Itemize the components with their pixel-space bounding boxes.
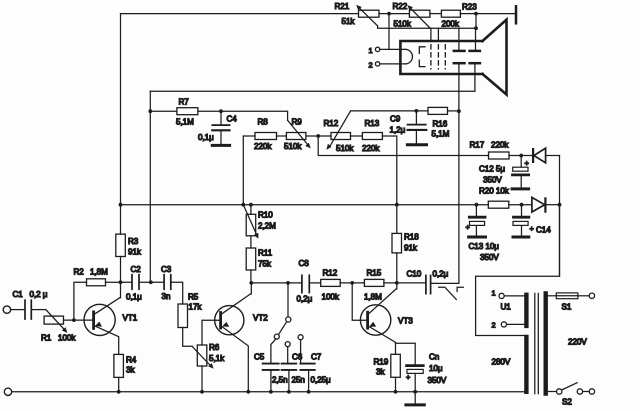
junction C14 tap [520, 203, 524, 207]
svg-text:R23: R23 [462, 3, 477, 12]
svg-text:10μ: 10μ [429, 364, 443, 373]
wire: R21 to R22 [379, 13, 409, 15]
svg-text:5,1k: 5,1k [209, 354, 225, 363]
svg-text:C10: C10 [407, 270, 422, 279]
wire: R1 to VT1 base [64, 319, 94, 321]
wire: grid hang-down x=430.9 [430, 28, 432, 41]
wire: main supply rail y=204.7 [121, 204, 489, 206]
capacitor C10 0,2u [426, 275, 431, 293]
junction x=150.3 y=111.2 [148, 109, 152, 113]
wire: doubler vertical x=559.5 [559, 156, 561, 277]
wire: vertical x=476 top rail to wiper bus [475, 14, 477, 29]
svg-text:220V: 220V [568, 338, 587, 347]
capacitor C8 0,2u [302, 275, 309, 292]
wire: R6 top to VT2 base [202, 320, 221, 345]
junction rail x=243.3 (R8 lead / R10 wiper) [241, 203, 245, 207]
svg-text:R18: R18 [404, 233, 419, 242]
svg-text:C2: C2 [131, 265, 142, 274]
svg-text:C8: C8 [299, 259, 310, 268]
svg-text:C9: C9 [390, 115, 401, 124]
CRT funnel [483, 20, 507, 95]
wire: R17 to diode VD1 [509, 155, 532, 157]
svg-text:R9: R9 [292, 118, 303, 127]
svg-text:Cn: Cn [429, 353, 439, 362]
svg-text:R21: R21 [335, 2, 350, 11]
svg-text:280V: 280V [492, 358, 511, 367]
capacitor C9 1,2u [408, 111, 427, 144]
junction VT3 collector node x=396.8 [395, 281, 399, 285]
CRT grid (dashed) 2 [437, 45, 439, 69]
svg-text:100k: 100k [58, 334, 76, 343]
junction rail x=396.8 [395, 203, 399, 207]
switch contact C5 [274, 334, 279, 339]
wire: R7 row left segment [150, 110, 177, 112]
diode VD2 (cathode right) [532, 197, 546, 212]
svg-text:3k: 3k [376, 368, 385, 377]
svg-text:R12: R12 [324, 119, 339, 128]
transformer T1 winding 220V (right bar) [544, 294, 548, 394]
svg-text:200k: 200k [442, 20, 460, 29]
svg-text:220k: 220k [254, 142, 272, 151]
resistor R9 510k (variable) wiper arrow [288, 120, 308, 145]
svg-text:R16: R16 [433, 120, 448, 129]
svg-text:U1: U1 [501, 303, 512, 312]
svg-text:C4: C4 [227, 115, 238, 124]
junction plate node x=458.9 [457, 109, 461, 113]
resistor R6 5,1k (variable) [192, 345, 214, 392]
svg-text:R13: R13 [365, 119, 380, 128]
svg-text:C1: C1 [13, 290, 24, 299]
wire: R16 to plate vertical [448, 110, 459, 112]
wire: heater lead 1 [380, 48, 406, 50]
svg-text:25n: 25n [292, 376, 305, 385]
svg-text:R7: R7 [179, 98, 190, 107]
capacitor C1 0,2u [25, 300, 31, 319]
resistor R22 510k (variable) [407, 5, 430, 28]
svg-text:0,2μ: 0,2μ [433, 270, 449, 279]
ground (below C9) [407, 143, 426, 146]
junction C9 tap [415, 109, 419, 113]
svg-text:R1: R1 [41, 334, 52, 343]
resistor R20 10k body [488, 201, 509, 208]
svg-text:5,1M: 5,1M [176, 118, 194, 127]
switch contact C7 [298, 335, 303, 340]
svg-text:R20 10k: R20 10k [479, 187, 510, 196]
capacitor C13 10u 350V (electrolytic) [469, 205, 485, 236]
resistor R18 91k [392, 233, 402, 283]
switch S2 [548, 383, 595, 394]
svg-text:0,2 μ: 0,2 μ [30, 290, 48, 299]
CRT bottom-right deflection plate [470, 63, 480, 91]
ground (below C4) [212, 144, 229, 147]
svg-text:1,8M: 1,8M [90, 268, 108, 277]
resistor R4 3k [114, 354, 124, 391]
svg-text:220k: 220k [491, 141, 509, 150]
wire: R2 to collector node [106, 281, 133, 283]
terminal U1 pin 1 [499, 293, 524, 298]
svg-text:2,2M: 2,2M [258, 222, 276, 231]
svg-text:350V: 350V [428, 376, 447, 385]
terminal 1 (heater) [375, 47, 379, 51]
resistor R19 3k [391, 354, 401, 392]
svg-text:+: + [525, 159, 529, 168]
junction R9/R12 x=318.2 [316, 134, 320, 138]
svg-text:R22: R22 [393, 2, 408, 11]
wire: R9/R12 junction down and right to R17 row [318, 136, 488, 156]
resistor R23 200k [441, 10, 460, 17]
junction rail C5 [269, 390, 273, 394]
transistor VT1 (PNP) [84, 282, 121, 354]
ground (below C13) [469, 236, 486, 239]
ground (below C12) [512, 187, 529, 190]
svg-text:17k: 17k [189, 303, 203, 312]
junction doubler x=559.5 [558, 203, 562, 207]
wire: top rail y=13.6 from big loop corner to R21 [121, 13, 359, 15]
CRT top-left deflection plate [454, 28, 465, 51]
svg-text:R5: R5 [188, 293, 199, 302]
wire: R23 to anode terminator [460, 13, 514, 15]
transistor VT3 (PNP) [360, 283, 396, 354]
svg-text:VT1: VT1 [123, 314, 138, 323]
svg-text:0,2μ: 0,2μ [297, 295, 313, 304]
wire: C2 to C3 [140, 281, 164, 283]
svg-text:+: + [530, 224, 534, 233]
svg-text:0,1μ: 0,1μ [198, 133, 214, 142]
wire: VD2 to doubler vertical [546, 204, 560, 206]
wire: R15 to VT3 collector node [384, 282, 426, 284]
svg-text:2: 2 [492, 321, 496, 330]
svg-text:C14: C14 [536, 226, 551, 235]
svg-text:+: + [406, 373, 410, 382]
CRT top-right deflection plate [470, 28, 480, 51]
ground (below C14) [513, 236, 529, 239]
CRT grid (dashed) 1 [430, 45, 432, 69]
wire: long feedback line y=91.3 to bottom-right plate [150, 90, 475, 92]
capacitor C14 (electrolytic) [513, 205, 529, 236]
wire: VD1 to right vertical [546, 155, 560, 157]
resistor R12 100k [321, 279, 341, 286]
wire: R12 to R15 [340, 282, 364, 284]
resistor R12 510k (variable) [326, 111, 350, 150]
resistor R2 1,8M [87, 279, 106, 286]
spark gap (discharger) [439, 287, 464, 299]
junction rail x=476.4 (C13) [475, 203, 479, 207]
svg-text:C7: C7 [311, 353, 322, 362]
svg-text:R2: R2 [74, 268, 85, 277]
resistor R11 75k [246, 236, 256, 283]
terminal U1 pin 2 [501, 322, 524, 327]
ground (chassis below rail) [406, 392, 424, 405]
wire: R8 left lead down to supply rail [242, 136, 244, 205]
svg-text:51k: 51k [342, 17, 356, 26]
wire: cathode drop x=389 to heater lead [388, 14, 390, 50]
wire: left vertical x=150.3 (y91 corner down to C2/C3 node) [149, 91, 151, 282]
wire: bottom common rail y=391.8 [12, 391, 525, 393]
anode terminator bar [515, 6, 518, 23]
wire: C3 right to R5 [172, 282, 183, 304]
resistor R13 220k [362, 133, 382, 140]
svg-text:R15: R15 [367, 269, 382, 278]
capacitor C2 0,1u [132, 275, 139, 290]
svg-text:S1: S1 [562, 303, 572, 312]
wire: R20 to diode VD2 [509, 204, 532, 206]
wire: VT3 base drop [352, 283, 367, 320]
svg-text:R3: R3 [128, 237, 139, 246]
wire: R22 to R23 [430, 13, 442, 15]
junction C12 tap [519, 154, 523, 158]
svg-text:R4: R4 [126, 356, 137, 365]
svg-text:350V: 350V [480, 253, 499, 262]
wire: base node up to R2 [74, 282, 87, 320]
wire: R9 to R12 junction [306, 135, 331, 137]
wire: collector row to C8 [251, 282, 301, 284]
junction rail Cn/ground [413, 390, 417, 394]
capacitor Cn 10u 350V (electrolytic) [407, 366, 424, 392]
svg-text:75k: 75k [258, 260, 272, 269]
svg-text:VT3: VT3 [398, 317, 413, 326]
junction top wire x=389 [387, 12, 391, 16]
svg-text:510k: 510k [336, 144, 354, 153]
svg-text:R6: R6 [209, 343, 220, 352]
junction rail x=250.9 (R10 top) [249, 203, 253, 207]
junction VT1 collector node x=120.5 [119, 280, 123, 284]
resistor R1 100k (variable) [44, 310, 67, 333]
resistor R8 220k [255, 133, 277, 140]
wire: vertical deflection feed x=458.9 down to C10 [458, 111, 460, 283]
svg-text:1,2μ: 1,2μ [390, 126, 406, 135]
svg-text:0,1μ: 0,1μ [126, 293, 142, 302]
svg-text:3k: 3k [126, 366, 135, 375]
diode VD1 (cathode left) [533, 148, 546, 163]
CRT cathode bracket top [419, 47, 425, 54]
svg-text:350V: 350V [483, 176, 502, 185]
transistor VT2 (PNP) [215, 283, 252, 392]
svg-text:91k: 91k [404, 244, 418, 253]
junction switch tap [286, 281, 290, 285]
svg-text:R17: R17 [470, 141, 485, 150]
svg-text:510k: 510k [394, 20, 412, 29]
resistor R7 5,1M [177, 108, 198, 115]
wire: C10 right to plate vertical [431, 282, 459, 284]
resistor R21 51k (variable) [356, 5, 379, 26]
junction top wire x=476 [474, 12, 478, 16]
CRT heater arc [406, 49, 412, 64]
capacitor C5 2,5n [263, 339, 279, 392]
svg-text:C13 10μ: C13 10μ [469, 242, 500, 251]
junction rail VT2 emitter [246, 390, 250, 394]
svg-text:C3: C3 [161, 265, 172, 274]
svg-text:C5: C5 [254, 353, 265, 362]
svg-text:R8: R8 [258, 118, 269, 127]
svg-text:1: 1 [492, 289, 496, 298]
junction rail R4 [117, 390, 121, 394]
resistor R9 510k (variable) body [286, 133, 306, 140]
svg-text:R10: R10 [258, 211, 273, 220]
junction VT3 base node [350, 281, 354, 285]
switch contact C6 [285, 342, 290, 347]
transformer T1 winding 280V/U1 (left bar upper) [524, 295, 528, 326]
resistor R5 17k [178, 304, 192, 346]
transformer T1 winding 280V (left bar lower) [524, 337, 528, 392]
wire: C1 to R1 [32, 309, 46, 311]
svg-text:C12 5μ: C12 5μ [479, 165, 505, 174]
ground/bottom terminal [4, 388, 11, 395]
wire: R7 to R9 wiper corner [198, 111, 288, 120]
junction wiper bus x=476 [474, 26, 478, 30]
svg-text:1: 1 [369, 46, 373, 55]
CRT grid (dashed) 3 [444, 45, 446, 69]
svg-text:1,8M: 1,8M [364, 293, 382, 302]
junction C2/C3 node x=150.8 [149, 280, 153, 284]
resistor R10 2,2M (variable) [243, 205, 258, 239]
junction rail x=120.5 [119, 203, 123, 207]
CRT cathode bracket bottom [419, 60, 425, 67]
svg-text:91k: 91k [128, 248, 142, 257]
wire: emitter to Cn [396, 343, 416, 364]
junction VT2 collector node [249, 281, 253, 285]
svg-text:5,1M: 5,1M [432, 130, 450, 139]
switch S common pole [286, 283, 291, 322]
capacitor C3 3n [164, 275, 171, 290]
wire: R13 right lead down x=396.8 [382, 136, 396, 233]
wire: grid hang-down x=438.4 [437, 28, 439, 41]
wire: heater lead 2 [380, 63, 406, 65]
CRT bottom-left deflection plate [454, 63, 465, 111]
junction rail C6 [287, 390, 291, 394]
svg-text:220k: 220k [362, 144, 380, 153]
wire: wiper bus y=28.2 (R21 wiper to plate feed) [378, 26, 476, 28]
wire: R12-R13 [351, 135, 363, 137]
junction rail R6 [200, 390, 204, 394]
svg-text:510k: 510k [284, 142, 302, 151]
resistor R16 5,1M [428, 107, 448, 114]
CRT tube neck (thick walls) [400, 41, 482, 74]
svg-text:0,25μ: 0,25μ [311, 376, 332, 385]
wire: input to C1 [11, 309, 25, 311]
terminal 2 (heater) [375, 62, 379, 66]
junction rail C7 [307, 390, 311, 394]
svg-text:S2: S2 [562, 398, 572, 407]
input terminal top [3, 306, 10, 313]
svg-text:2,5n: 2,5n [272, 376, 288, 385]
wire: R8 row [243, 135, 255, 137]
wire: R12 wiper to C9/R16 row [351, 110, 428, 112]
capacitor C4 0,1u [212, 111, 229, 144]
wire: HV secondary loop [476, 205, 560, 336]
junction C4 tap [219, 109, 223, 113]
capacitor C7 0,25u [300, 340, 314, 392]
junction VT1 base node [72, 318, 76, 322]
wire: top left loop vertical x=120.5 [120, 14, 122, 205]
svg-text:R19: R19 [374, 358, 389, 367]
wire: R8-R9 [277, 135, 287, 137]
junction rail R19 [394, 390, 398, 394]
resistor R17 220k [489, 152, 510, 159]
svg-text:3n: 3n [162, 292, 171, 301]
svg-text:R12: R12 [323, 269, 338, 278]
switch S lever [279, 322, 287, 335]
transformer T1 core [535, 293, 539, 393]
wire: C8 to R12 [310, 282, 321, 284]
svg-text:VT2: VT2 [253, 314, 268, 323]
resistor R15 1,8M [364, 279, 384, 286]
svg-text:+: + [466, 223, 470, 232]
svg-text:R11: R11 [258, 249, 273, 258]
capacitor C6 25n [282, 347, 297, 392]
resistor R3 91k [116, 205, 126, 283]
svg-text:2: 2 [369, 60, 373, 69]
svg-text:100k: 100k [322, 293, 340, 302]
fuse S1 [548, 293, 595, 299]
capacitor C12 5u 350V (electrolytic) [513, 156, 529, 188]
